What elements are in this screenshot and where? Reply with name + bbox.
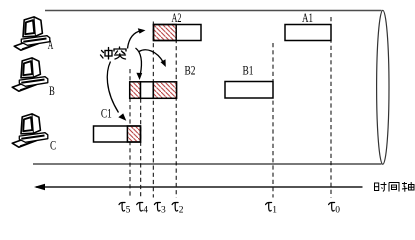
dashed time line tau3 [152,22,154,198]
tau0 glyph [329,203,335,211]
tau3 glyph [154,203,160,211]
frame A1 [285,25,331,41]
dashed time line tau1 [272,43,274,198]
间 [388,183,390,192]
svg-text:A: A [48,37,54,52]
tau labels: custom tau glyph + subscript digit [119,203,335,211]
轴 [402,183,407,185]
frame C1 white part [94,126,141,142]
svg-text:3: 3 [161,206,166,216]
svg-text:0: 0 [335,206,340,216]
时 [375,183,379,191]
dashed time line tau0 [330,17,332,198]
frame B2 hatched cell 1 [130,82,141,99]
svg-text:B2: B2 [185,62,196,77]
text 时间轴 (time axis) drawn as strokes [375,182,415,192]
svg-text:4: 4 [143,206,148,216]
bus cylinder top line [45,10,382,12]
bus cylinder right end ellipse [377,10,389,164]
突 八 [116,51,118,54]
text 冲突 (collision) drawn as strokes [101,47,127,59]
tau2 glyph [172,203,178,211]
svg-text:C: C [50,137,56,152]
time axis arrowhead [34,184,45,191]
dashed time line tau4 [140,99,142,198]
bus cylinder bottom line [33,163,382,165]
collision arrow to B2 left hatched cell [136,48,142,75]
冲 part 中 [105,51,112,57]
冲 radical 冫 [102,51,104,53]
svg-text:2: 2 [179,206,184,216]
svg-text:B: B [49,83,55,98]
frame A2 white part [154,25,202,41]
collision arrow to A2 [128,31,142,49]
frame B2 white cell [141,82,154,99]
frame C1 hatched part [127,126,140,142]
tau5 glyph [119,203,125,211]
svg-text:5: 5 [126,206,131,216]
dashed time line tau5 [129,69,131,198]
tau1 glyph [266,203,272,211]
frame B2 hatched cell 2 [153,82,176,99]
svg-text:A1: A1 [302,10,313,25]
frame A2 hatched part [154,25,177,41]
svg-text:1: 1 [272,206,277,216]
computer B icon [12,58,48,91]
svg-text:C1: C1 [101,105,112,120]
collision arrow to B2 right hatched cell [139,50,164,63]
突 roof 宀 [119,47,121,49]
svg-text:B1: B1 [243,62,254,77]
collision arrow to C1 hatched cell [107,62,118,113]
time axis line [36,186,363,188]
computer A icon [14,17,50,50]
frame B1 [225,82,273,99]
tau4 glyph [137,203,143,211]
突 犬 [115,54,126,56]
svg-text:A2: A2 [172,10,182,25]
computer C icon [12,114,48,147]
dashed time line tau2 [175,25,177,198]
